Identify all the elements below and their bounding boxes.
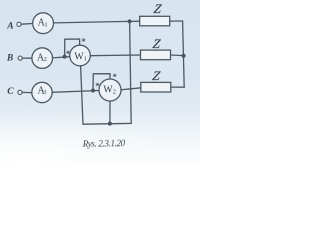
wire terminal C to A3	[22, 91, 32, 93]
impedance Z3	[141, 82, 171, 92]
ammeter A1	[33, 13, 54, 34]
wire voltage coil bracket of W2	[93, 74, 110, 91]
node C (phase label)	[7, 87, 14, 97]
wire right rail	[183, 21, 185, 87]
ammeter A2	[32, 48, 53, 69]
wire terminal B to A2	[22, 57, 32, 59]
svg-text:A: A	[6, 22, 13, 32]
value label Z of Z2	[152, 36, 162, 51]
svg-text:W: W	[103, 85, 113, 96]
node A (phase label)	[6, 22, 13, 32]
svg-text:1: 1	[44, 21, 47, 28]
wire A1 to Z1	[54, 21, 140, 23]
polarity asterisk at W1 line tap	[66, 51, 69, 54]
node B (phase label)	[6, 54, 13, 64]
svg-text:1: 1	[84, 55, 87, 62]
wire W2 to Z3	[121, 88, 141, 90]
svg-text:B: B	[6, 54, 13, 64]
junction dot on line A	[128, 19, 132, 23]
junction dot on bottom return wire	[108, 122, 112, 126]
svg-text:Rys. 2.3.1.20: Rys. 2.3.1.20	[82, 138, 126, 149]
wire terminal A to A1	[21, 23, 33, 26]
terminal B	[18, 56, 22, 60]
terminal C	[18, 90, 22, 94]
wire W1 voltage coil return leg	[81, 66, 83, 124]
wire bottom return	[83, 122, 131, 125]
junction dot voltage tap of W1 on line B	[63, 55, 67, 59]
wire voltage coil bracket of W1	[65, 39, 80, 57]
svg-text:2: 2	[113, 89, 116, 95]
junction dot on right rail	[182, 54, 186, 58]
wire Z2 to right rail	[171, 54, 184, 57]
value label Z of Z3	[152, 68, 162, 83]
wire Z1 to right rail	[170, 20, 183, 22]
svg-text:3: 3	[43, 90, 46, 96]
value label Z of Z1	[153, 1, 163, 16]
wattmeter W1	[70, 45, 91, 66]
polarity asterisk at W2 voltage terminal	[113, 74, 116, 77]
svg-text:2: 2	[44, 57, 47, 63]
wire A2 to W1	[53, 57, 70, 58]
ammeter A3	[32, 82, 52, 102]
wattmeter W2	[99, 79, 121, 101]
caption Rys. 2.3.1.20	[82, 138, 126, 149]
terminal A	[17, 22, 21, 26]
wire W2 voltage coil return leg	[109, 101, 111, 124]
impedance Z1	[140, 16, 170, 26]
wire A3 to W2	[52, 91, 99, 93]
junction dot voltage tap of W2 on line C	[91, 89, 95, 93]
svg-text:C: C	[7, 87, 14, 97]
impedance Z2	[141, 50, 171, 60]
polarity asterisk at W1 voltage terminal	[82, 39, 85, 42]
polarity asterisk at W2 line tap	[96, 83, 99, 86]
wire Z3 to right rail	[171, 86, 184, 88]
wire W1 to Z2	[90, 54, 140, 57]
wire rail from line A down to bottom wire	[130, 21, 132, 123]
